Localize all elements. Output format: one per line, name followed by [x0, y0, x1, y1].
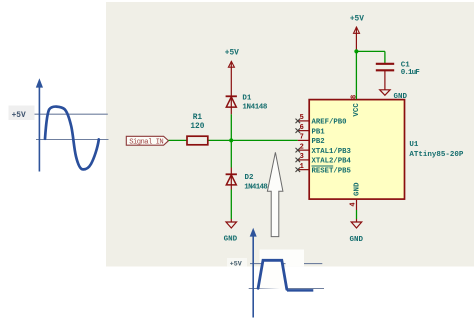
svg-text:1N4148: 1N4148: [242, 103, 267, 111]
svg-text:8: 8: [350, 95, 358, 99]
svg-text:7: 7: [300, 134, 304, 142]
svg-text:D2: D2: [245, 174, 255, 182]
svg-text:+5V: +5V: [230, 261, 242, 268]
svg-text:GND: GND: [349, 236, 363, 244]
svg-text:2: 2: [300, 143, 304, 151]
svg-text:+5V: +5V: [350, 16, 364, 24]
svg-text:120: 120: [190, 123, 204, 131]
svg-text:1: 1: [300, 163, 304, 171]
svg-text:Signal IN: Signal IN: [129, 138, 164, 146]
svg-text:6: 6: [300, 124, 304, 132]
svg-text:3: 3: [300, 153, 304, 161]
svg-text:RESET/PB5: RESET/PB5: [312, 167, 351, 175]
svg-text:R1: R1: [193, 114, 203, 122]
svg-text:5: 5: [300, 114, 304, 122]
svg-text:GND: GND: [394, 93, 408, 101]
svg-text:GND: GND: [224, 236, 238, 244]
svg-text:VCC: VCC: [353, 103, 361, 117]
svg-text:+5V: +5V: [225, 50, 239, 58]
svg-text:+5V: +5V: [12, 112, 26, 120]
svg-text:1N4148: 1N4148: [244, 183, 268, 191]
svg-text:XTAL1/PB3: XTAL1/PB3: [312, 148, 352, 156]
svg-text:GND: GND: [354, 182, 362, 196]
svg-text:0.1uF: 0.1uF: [401, 69, 420, 77]
svg-text:U1: U1: [409, 141, 419, 149]
svg-text:XTAL2/PB4: XTAL2/PB4: [312, 158, 352, 166]
svg-text:PB1: PB1: [312, 128, 326, 136]
svg-text:PB2: PB2: [312, 138, 325, 146]
svg-text:AREF/PB0: AREF/PB0: [312, 119, 347, 127]
svg-text:D1: D1: [242, 94, 252, 102]
svg-text:ATtiny85-20P: ATtiny85-20P: [409, 151, 464, 159]
